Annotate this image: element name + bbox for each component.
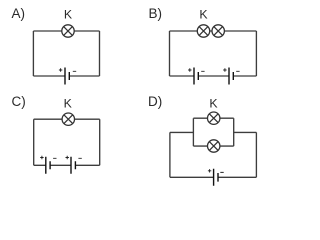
svg-text:K: K [199,7,208,21]
svg-text:K: K [64,96,73,110]
svg-text:D): D) [148,94,162,109]
svg-text:K: K [209,96,218,110]
svg-text:B): B) [149,6,163,21]
svg-text:C): C) [12,94,26,109]
svg-text:K: K [64,7,73,21]
svg-text:A): A) [12,6,26,21]
